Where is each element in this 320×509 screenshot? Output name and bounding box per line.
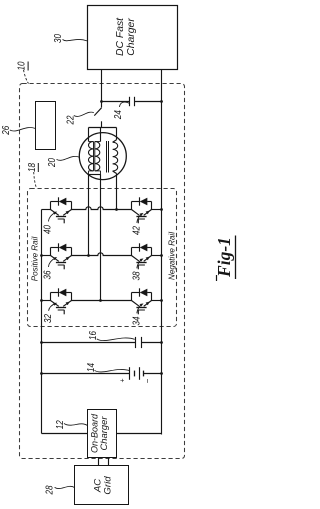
svg-text:Fig-1: Fig-1	[214, 237, 234, 278]
svg-text:DC Fast: DC Fast	[115, 17, 126, 56]
svg-text:40: 40	[43, 225, 54, 234]
svg-text:−: −	[143, 378, 152, 383]
svg-text:Positive Rail: Positive Rail	[31, 237, 40, 282]
svg-text:Grid: Grid	[103, 476, 114, 495]
svg-text:42: 42	[132, 226, 143, 235]
svg-text:36: 36	[43, 270, 54, 279]
svg-text:20: 20	[47, 158, 58, 168]
svg-text:22: 22	[66, 115, 77, 125]
svg-text:32: 32	[43, 314, 54, 323]
svg-text:16: 16	[88, 331, 99, 340]
svg-text:28: 28	[45, 485, 56, 495]
svg-text:Negative Rail: Negative Rail	[167, 232, 176, 280]
svg-text:34: 34	[132, 316, 143, 325]
svg-text:+: +	[119, 378, 126, 382]
svg-text:12: 12	[55, 420, 66, 429]
svg-text:Charger: Charger	[99, 415, 109, 450]
svg-text:30: 30	[53, 34, 64, 43]
svg-text:18: 18	[27, 163, 38, 172]
svg-text:24: 24	[113, 110, 124, 120]
svg-text:10: 10	[17, 61, 28, 70]
svg-text:38: 38	[132, 271, 143, 280]
svg-text:Charger: Charger	[126, 18, 137, 56]
